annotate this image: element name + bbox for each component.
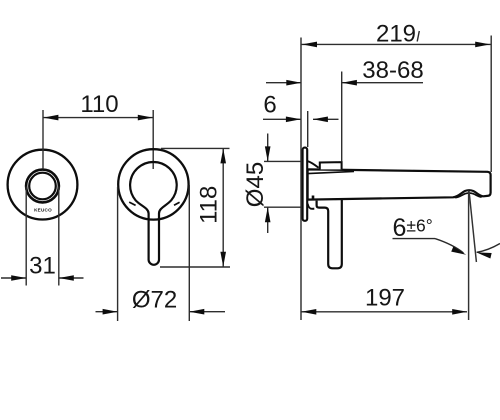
valve ring outer circle [26,170,59,203]
svg-text:31: 31 [29,253,56,280]
dimension 219 text [376,21,416,48]
cartridge cap [320,162,342,169]
dimension 219 [302,42,491,48]
dimension 110 text [80,91,118,118]
set screw mark [312,196,315,199]
svg-text:KEUCO: KEUCO [34,208,52,213]
svg-text:38-68: 38-68 [362,57,423,84]
dimension 118 [220,148,226,267]
svg-text:118: 118 [196,186,223,224]
dimension 6 [263,117,339,123]
dimension 197 [301,309,467,315]
KEUCO logo text [34,208,52,213]
aerator inner curve [455,193,481,198]
stream angle line [469,192,476,263]
extension lines 31 [26,187,59,286]
svg-text:219: 219 [376,21,416,48]
dimension 38-68 text [362,57,423,84]
centerline left circle [42,110,44,169]
svg-text:6: 6 [263,91,276,118]
lever arm lower edge [308,204,314,209]
extension lines 118 [160,148,230,267]
dimension 31 [1,275,84,281]
svg-text:Ø45: Ø45 [242,162,269,207]
neck curve from plate to cap [308,161,319,168]
grip tick left [129,202,135,205]
dimension 72 text [132,287,177,314]
dimension 38-68 [266,80,423,86]
plate front extension line [307,111,309,147]
dimension 110 line [43,115,153,121]
svg-text:110: 110 [80,91,118,118]
dimension 197 text [365,284,405,311]
dimension 45 text [242,162,269,207]
svg-text:197: 197 [365,284,405,311]
stray comma mark [417,31,419,42]
dimension 45 [265,134,271,234]
extension lines diameter 72 [118,185,190,321]
wall line (side view) [300,38,302,321]
lever handle (side view) [317,200,342,269]
escutcheon plate outer circle (front view left) [8,150,78,220]
centerline right circle [152,110,154,169]
angle text 6 plus-minus 6 degrees [393,214,433,242]
dimension 72 [96,309,226,315]
spout taper line [308,171,354,173]
dimension 118 text [196,186,223,224]
valve box extension line [341,72,343,162]
angle leader arc left [435,239,467,258]
angle text underline [393,238,436,240]
outlet plumb reference line [468,191,470,321]
valve ring inner circle [29,173,56,200]
spout body outline [308,169,491,199]
dimension 31 text [29,253,56,280]
extension lines diameter 45 [264,161,301,207]
handle escutcheon outer circle (front view right) [118,149,188,219]
angle leader arc right tail [476,244,500,259]
svg-text:Ø72: Ø72 [132,287,177,314]
spout tip extension line [490,36,492,173]
wall plate (side view) [303,148,308,221]
dimension 6 text [263,91,276,118]
grip tick right [174,202,180,205]
handle inner circle with lever stem [130,162,177,265]
